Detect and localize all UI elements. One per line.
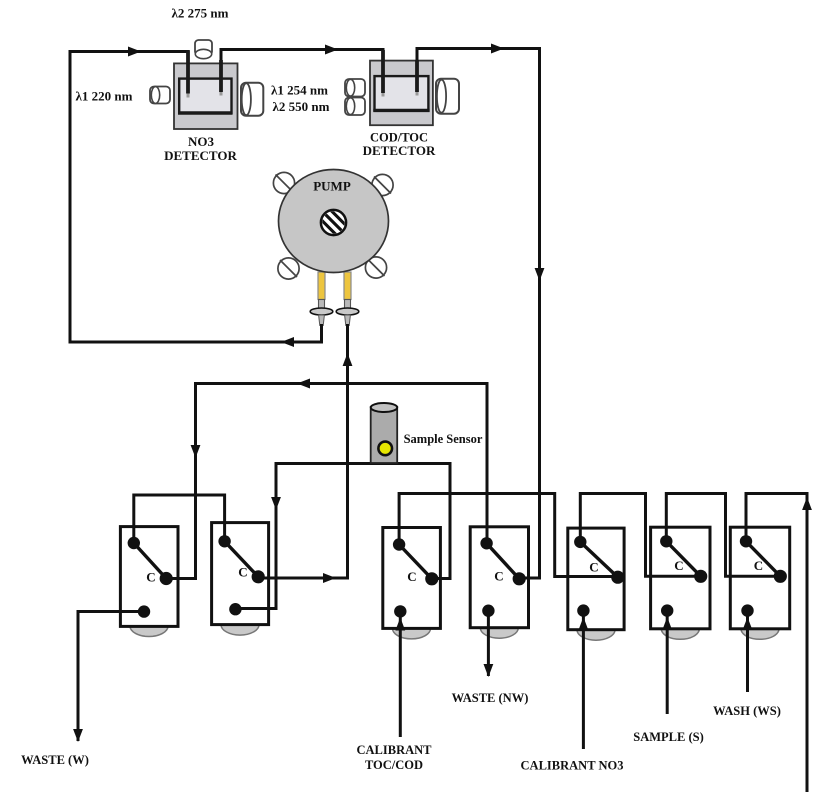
pump fitting right xyxy=(336,300,359,326)
svg-text:λ1 220 nm: λ1 220 nm xyxy=(76,89,133,104)
svg-text:SAMPLE (S): SAMPLE (S) xyxy=(633,730,704,744)
arrow down WASTE (W) xyxy=(73,729,83,742)
valve V6 body xyxy=(651,527,710,629)
svg-text:WASTE (NW): WASTE (NW) xyxy=(452,691,529,705)
valve V3 dome xyxy=(393,618,431,639)
svg-text:C: C xyxy=(674,558,683,573)
pump hub xyxy=(316,205,351,240)
NO3 photodiode cylinder right xyxy=(241,83,263,116)
arrow right COD outlet xyxy=(491,44,504,54)
sample sensor S1 xyxy=(371,403,398,463)
svg-text:PUMP: PUMP xyxy=(313,179,351,194)
wire valve V4 bottom to WASTE (NW) xyxy=(487,611,490,676)
wire valve V6 top to valve V7 common xyxy=(666,494,779,577)
wire CALIBRANT TOC/COD into valve V3 bottom xyxy=(399,612,402,737)
wire NO3 outlet to COD/TOC inlet xyxy=(221,50,383,94)
arrow down to valve V1 common xyxy=(191,445,201,458)
svg-text:C: C xyxy=(494,569,503,584)
svg-text:C: C xyxy=(146,570,155,585)
wire pump-right suction down to valve V2 common level xyxy=(260,324,348,578)
svg-text:C: C xyxy=(754,558,763,573)
valve V3 ports and rotor xyxy=(393,538,439,617)
NO3 inlet tube xyxy=(186,50,190,93)
valve V7 dome xyxy=(741,618,779,639)
wire valve V1 top to valve V2 top xyxy=(134,495,225,542)
svg-text:λ1 254 nm: λ1 254 nm xyxy=(271,83,328,98)
wire sample sensor line: valve V2 bottom to valve V3 common xyxy=(237,464,451,609)
COD/TOC detector outer box xyxy=(370,61,433,126)
arrow left pump return xyxy=(281,337,294,347)
wire SAMPLE into valve V6 bottom xyxy=(666,611,669,714)
svg-text:CALIBRANT: CALIBRANT xyxy=(356,743,432,757)
arrow down to valve V2 bottom xyxy=(271,497,281,510)
wire valve V3 top to valve V5 common xyxy=(399,494,616,577)
pump bolt top-left xyxy=(273,172,294,193)
arrow up into valve V3 bottom xyxy=(395,618,405,631)
valve V6 dome xyxy=(661,618,699,639)
valve V5 body xyxy=(568,528,624,630)
valve V1 dome xyxy=(130,616,168,637)
valve V1 ports and rotor xyxy=(128,537,173,618)
svg-text:NO3: NO3 xyxy=(188,134,215,149)
svg-text:C: C xyxy=(407,569,416,584)
pump bolt top-right xyxy=(372,174,393,195)
pump bolt bottom-right xyxy=(365,257,386,278)
NO3 lamp cylinder left xyxy=(150,87,170,104)
svg-text:C: C xyxy=(589,560,598,575)
svg-text:λ2 550 nm: λ2 550 nm xyxy=(273,99,330,114)
pump fitting left xyxy=(310,300,333,326)
wire COD/TOC outlet right and down to valve V4 common xyxy=(417,49,540,579)
arrow left y383 manifold xyxy=(297,379,310,389)
valve V7 body xyxy=(730,527,789,629)
arrow right into pump riser xyxy=(323,573,336,583)
svg-text:C: C xyxy=(238,565,247,580)
COD/TOC detector inner cell xyxy=(375,76,429,110)
valve V5 dome xyxy=(577,619,615,640)
svg-text:CALIBRANT NO3: CALIBRANT NO3 xyxy=(521,759,624,773)
svg-text:TOC/COD: TOC/COD xyxy=(365,758,423,772)
NO3 detector outer box xyxy=(174,63,238,129)
wire CALIBRANT NO3 into valve V5 bottom xyxy=(582,611,585,749)
svg-text:Sample Sensor: Sample Sensor xyxy=(404,432,483,446)
arrow up into valve V7 bottom xyxy=(743,617,753,630)
wire valve V1 common to valve V4 top port (y383 manifold) xyxy=(167,384,487,579)
pump tube left (yellow) xyxy=(318,272,325,300)
COD/TOC photodiode cylinder right xyxy=(436,79,459,114)
valve V4 dome xyxy=(480,617,518,638)
arrow down WASTE (NW) xyxy=(484,664,494,677)
COD/TOC lamp cylinders left (two stacked) xyxy=(345,79,365,115)
valve V3 body xyxy=(383,528,441,629)
arrow right on top-left feed xyxy=(128,47,141,57)
pump tube right (yellow) xyxy=(344,272,351,300)
wire valve V1 bottom to WASTE (W) xyxy=(78,612,143,742)
wire valve V5 top to valve V6 common xyxy=(580,494,699,577)
valve V5 ports and rotor xyxy=(574,536,624,617)
valve V2 ports and rotor xyxy=(218,535,264,615)
arrow up pump suction xyxy=(343,353,353,366)
arrow up into valve V5 bottom xyxy=(579,617,589,630)
svg-text:DETECTOR: DETECTOR xyxy=(164,148,237,163)
valve V6 ports and rotor xyxy=(660,535,707,617)
valve V1 body xyxy=(120,527,178,627)
pump bolt bottom-left xyxy=(278,258,299,279)
arrow down right riser xyxy=(535,268,545,281)
svg-text:WASH (WS): WASH (WS) xyxy=(713,704,781,718)
svg-text:DETECTOR: DETECTOR xyxy=(363,143,436,158)
valve V4 body xyxy=(470,527,528,628)
arrow up into valve V6 bottom xyxy=(662,617,672,630)
arrow up right supply riser xyxy=(802,497,812,510)
wire WASH into valve V7 bottom xyxy=(746,611,749,692)
valve V2 dome xyxy=(221,614,259,635)
NO3 detector inner cell xyxy=(179,79,231,113)
svg-text:λ2 275 nm: λ2 275 nm xyxy=(172,6,229,21)
NO3 top cylinder xyxy=(195,40,212,59)
arrow right NO3 to COD xyxy=(325,45,338,55)
COD/TOC outlet tube xyxy=(415,60,419,92)
valve V2 body xyxy=(212,523,269,625)
wire pump-left return: pump left fitting down, left along y342, up at x70, right along y51 to NO3 inlet xyxy=(70,52,322,343)
wire valve V7 top to right-side supply riser xyxy=(746,494,807,793)
NO3 outlet tube xyxy=(219,60,223,92)
svg-text:WASTE (W): WASTE (W) xyxy=(21,753,89,767)
valve V7 ports and rotor xyxy=(740,535,787,617)
valve V4 ports and rotor xyxy=(480,537,525,617)
COD/TOC inlet tube xyxy=(381,50,385,93)
pump body P1 xyxy=(279,170,389,273)
